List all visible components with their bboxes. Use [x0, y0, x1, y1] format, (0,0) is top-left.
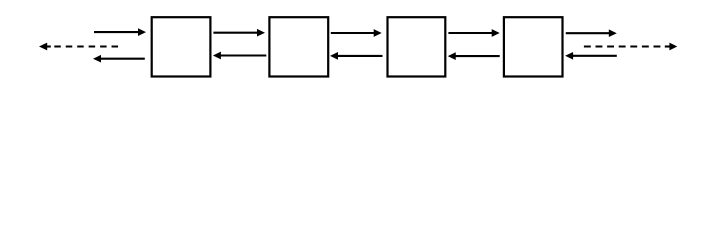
block 3 [388, 17, 446, 76]
arrow right block 2 to block 3 (top) [331, 29, 382, 37]
arrow left block 4 to block 3 (bottom) [448, 52, 500, 60]
arrow left out of block 1 (bottom-left end) [93, 55, 145, 63]
arrow right block 3 to block 4 (top) [448, 29, 499, 37]
block 4 [504, 17, 563, 76]
arrow left into block 4 (bottom-right end) [565, 52, 617, 60]
dashed arrow right (pointing right, off-chain continuation) [584, 43, 677, 51]
arrow right block 1 to block 2 (top) [213, 29, 265, 37]
arrow right out of block 4 (top-right end) [566, 29, 617, 37]
arrow right into block 1 (top-left end) [94, 28, 146, 36]
arrow left block 3 to block 2 (bottom) [330, 52, 383, 60]
block 1 [152, 17, 211, 76]
block 2 [269, 17, 328, 76]
dashed arrow left (pointing left, off-chain continuation) [39, 43, 119, 51]
arrow left block 2 to block 1 (bottom) [213, 52, 266, 60]
